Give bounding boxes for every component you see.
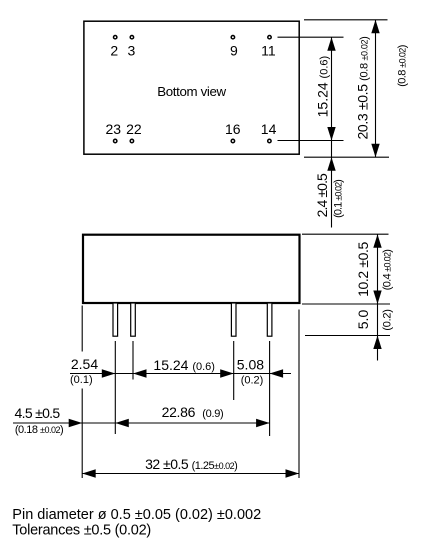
svg-text:(0.4 ±0.02): (0.4 ±0.02) [382,250,394,290]
pin 16 [225,121,241,143]
svg-text:Bottom view: Bottom view [157,84,226,99]
svg-text:2.54: 2.54 [71,356,98,372]
extension line pin 2 [132,341,134,380]
svg-text:2.4 ±0.5: 2.4 ±0.5 [314,173,330,217]
svg-text:22: 22 [126,121,142,137]
dimension line 20.3 vertical [371,20,379,157]
package outline (side view) [83,235,300,303]
svg-text:16: 16 [225,121,241,137]
dimension row 4.5 / 22.86 [13,419,270,427]
svg-text:32 ±0.5 (1.25±0.02): 32 ±0.5 (1.25±0.02) [145,456,237,472]
extension line left edge lower [81,389,83,479]
extension line left edge upper [81,306,83,352]
pin 23 [106,121,122,143]
svg-text:(0.2): (0.2) [241,374,264,386]
extension line pin 3 [233,341,235,400]
extension line from bottom edge [304,156,389,158]
pin 14 [261,121,277,143]
pin 1 (side view) [113,303,118,336]
extension line pin tips [305,335,390,337]
extension line side bottom [302,303,390,305]
pin 9 [230,36,238,59]
extension line from pin 11 row [278,36,344,38]
svg-text:Tolerances ±0.5 (0.02): Tolerances ±0.5 (0.02) [12,523,151,539]
svg-text:22.86 (0.9): 22.86 (0.9) [162,404,224,420]
svg-text:14: 14 [261,121,277,137]
svg-text:23: 23 [106,121,122,137]
svg-text:4.5 ±0.5: 4.5 ±0.5 [15,405,61,421]
svg-text:15.24 (0.6): 15.24 (0.6) [315,56,331,118]
svg-text:(0.1): (0.1) [70,374,93,386]
svg-text:9: 9 [230,43,238,59]
pin 11 [261,36,276,59]
svg-text:11: 11 [261,43,276,59]
pin 4 (side view) [267,303,272,336]
svg-text:15.24 (0.6): 15.24 (0.6) [153,357,215,373]
extension line from pin 14 row [278,140,344,142]
dimension line 10.2 / 5.0 vertical [373,234,381,360]
dimension row 2.54 / 15.24 / 5.08 [70,369,291,377]
svg-text:(0.18 ±0.02): (0.18 ±0.02) [15,424,63,436]
svg-text:(0.2): (0.2) [382,309,394,330]
svg-text:Pin diameter ø 0.5 ±0.05 (0.0: Pin diameter ø 0.5 ±0.05 (0.02) ±0.002 [12,507,261,523]
extension line right edge [298,310,300,479]
svg-text:(0.1 ±0.02): (0.1 ±0.02) [333,180,345,218]
svg-text:(0.8 ±0.02): (0.8 ±0.02) [397,45,409,87]
extension line from top edge [304,19,388,21]
svg-text:5.0: 5.0 [355,310,371,330]
pin 2 (side view) [131,303,136,336]
dimension line 15.24 / 2.4 vertical [327,37,335,227]
dimension row 32 [82,469,299,477]
extension line pin 1 [114,341,116,434]
svg-text:5.08: 5.08 [237,357,264,373]
extension line side top [302,233,389,235]
svg-text:3: 3 [128,43,136,59]
pin 3 [128,36,136,59]
pin 22 [126,121,142,143]
svg-text:2: 2 [110,43,118,59]
pin 2 [110,36,118,59]
svg-text:10.2 ±0.5: 10.2 ±0.5 [355,242,371,297]
pin 3 (side view) [231,303,236,336]
extension line pin 4 [269,341,271,436]
svg-text:20.3 ±0.5 (0.8 ±0.02): 20.3 ±0.5 (0.8 ±0.02) [355,37,371,140]
package outline (bottom view) [84,21,299,154]
